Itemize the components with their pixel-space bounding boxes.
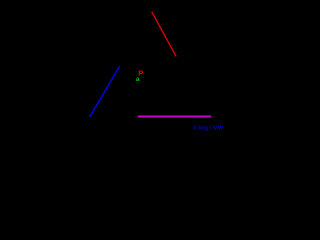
- blue line: [90, 67, 120, 117]
- magenta line: [139, 116, 211, 118]
- svg-text:X fmg / MW: X fmg / MW: [193, 125, 224, 131]
- red line: [152, 12, 176, 56]
- svg-text:a: a: [136, 76, 140, 83]
